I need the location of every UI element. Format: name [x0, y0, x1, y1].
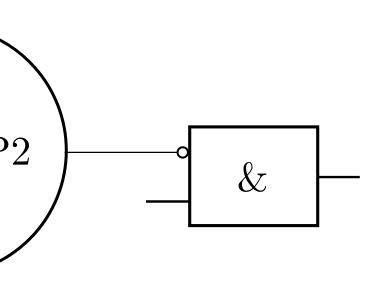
wire second input — [146, 200, 189, 203]
wire output — [319, 176, 360, 178]
wire from node P2 to inverter bubble — [65, 151, 178, 153]
inverter bubble at gate input — [178, 147, 188, 157]
label P2: letter P (Latin Modern outline) — [0, 137, 8, 165]
node P2 (large circle, clipped at left edge) — [0, 25, 66, 275]
AND gate U1 body — [190, 127, 318, 226]
label P2: digit 2 (Latin Modern outline) — [13, 138, 29, 165]
AND gate label ampersand (Latin Modern outline) — [239, 162, 267, 192]
